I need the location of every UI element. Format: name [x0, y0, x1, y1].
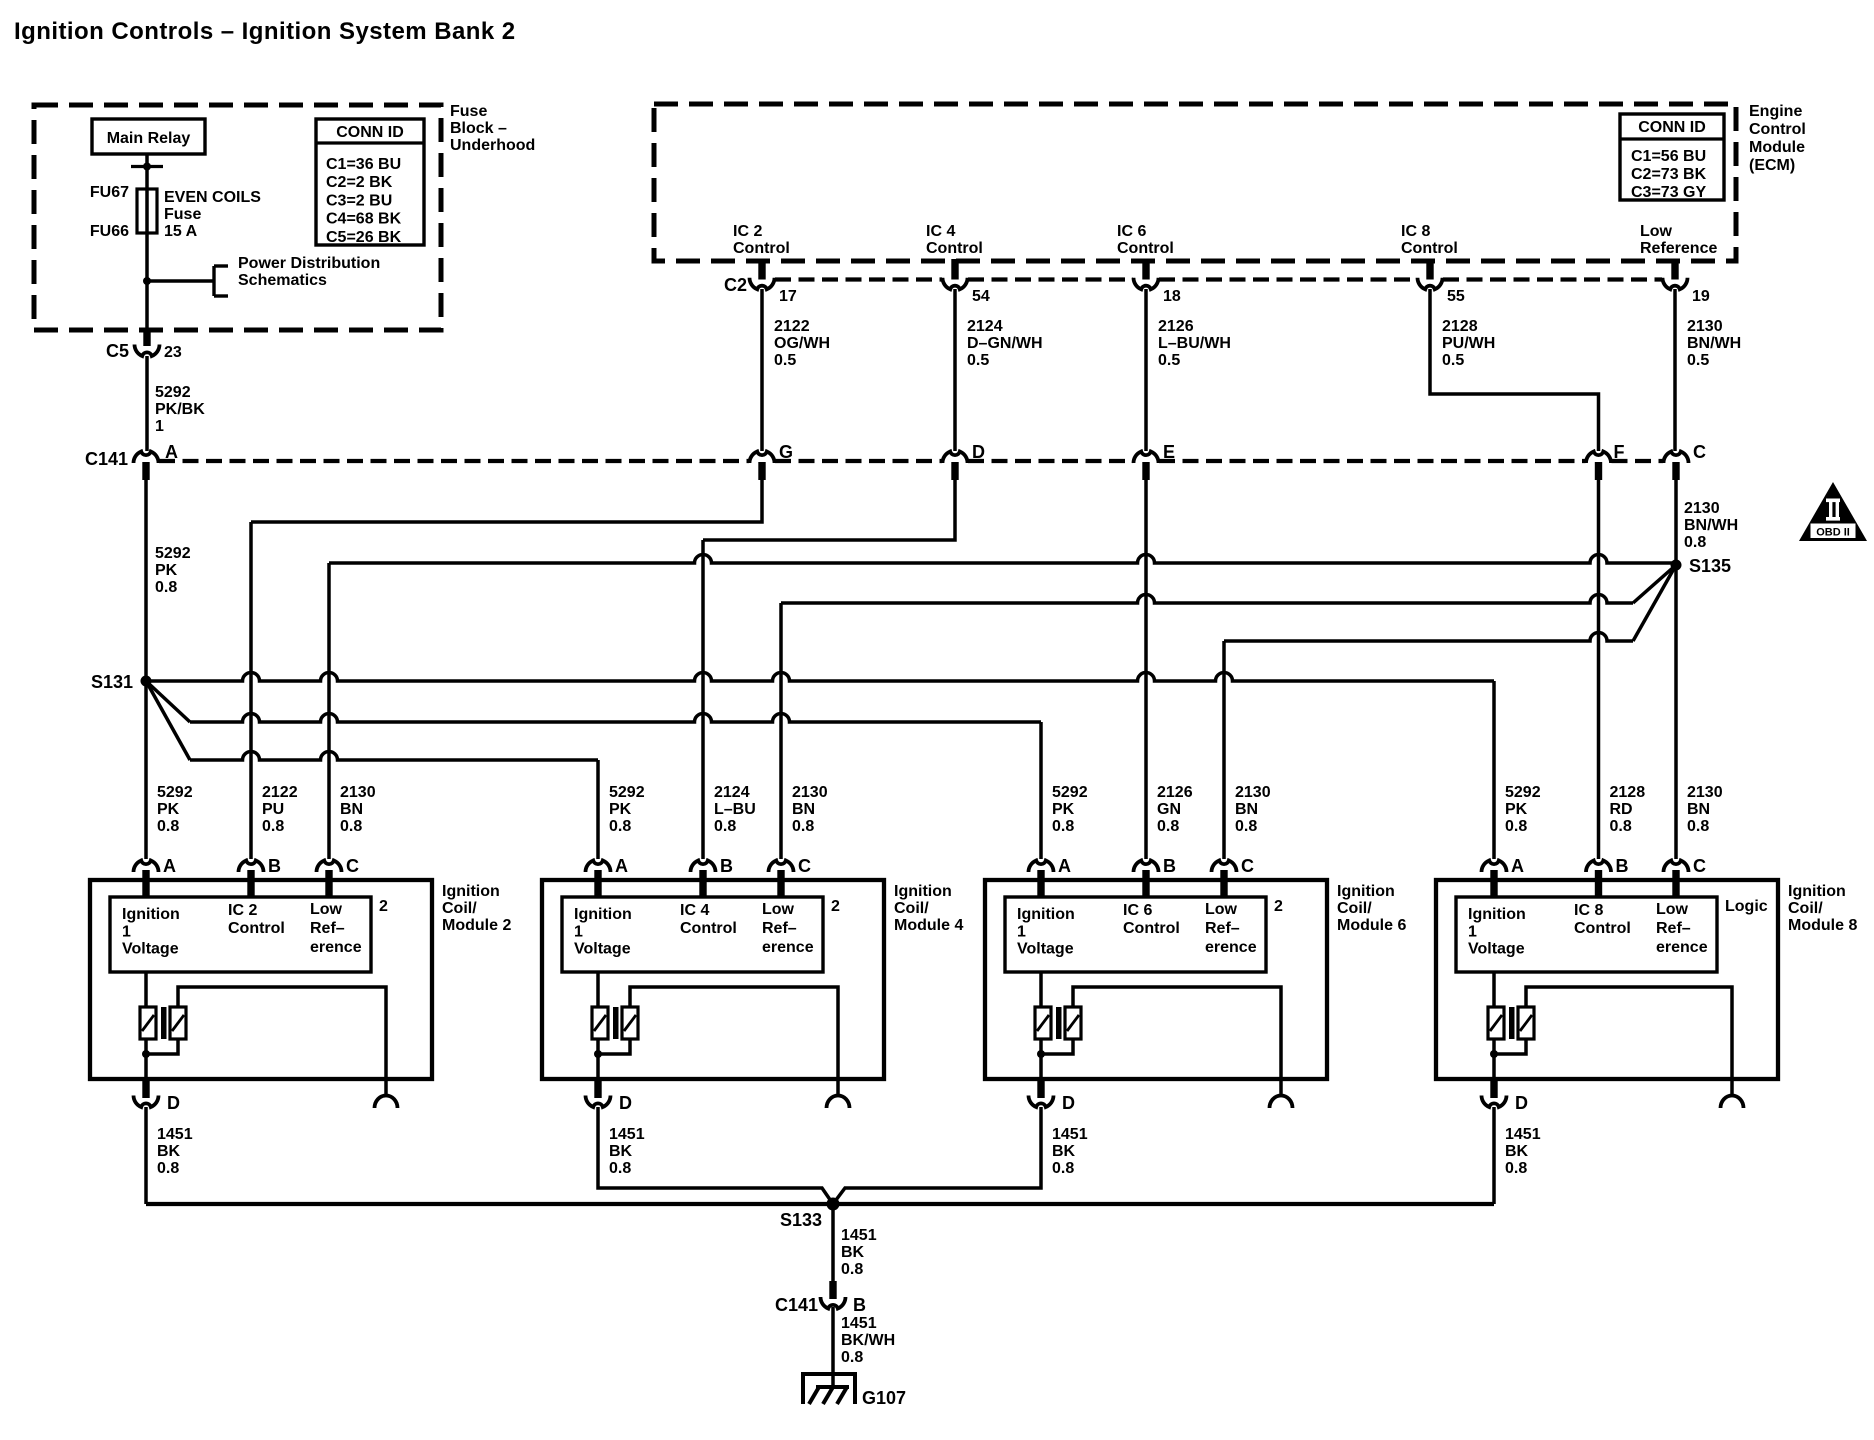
svg-text:Engine: Engine — [1749, 103, 1802, 120]
svg-text:1: 1 — [574, 923, 583, 940]
svg-text:Ignition: Ignition — [574, 906, 632, 923]
svg-text:S133: S133 — [780, 1210, 822, 1230]
svg-text:B: B — [1163, 856, 1176, 876]
svg-text:Ignition: Ignition — [122, 906, 180, 923]
svg-text:A: A — [1511, 856, 1524, 876]
svg-text:Ignition: Ignition — [1788, 883, 1846, 900]
svg-text:RD: RD — [1610, 801, 1633, 818]
svg-text:5292: 5292 — [157, 784, 193, 801]
svg-text:IC 4: IC 4 — [926, 223, 955, 240]
svg-text:Main Relay: Main Relay — [107, 130, 191, 147]
svg-text:C5: C5 — [106, 341, 129, 361]
svg-text:C5=26 BK: C5=26 BK — [326, 229, 402, 246]
svg-text:OG/WH: OG/WH — [774, 335, 830, 352]
svg-text:Ref–: Ref– — [1205, 920, 1240, 937]
svg-text:2124: 2124 — [714, 784, 750, 801]
svg-text:IC 2: IC 2 — [733, 223, 762, 240]
svg-text:BK: BK — [1052, 1143, 1076, 1160]
svg-text:Coil/: Coil/ — [894, 900, 929, 917]
svg-text:17: 17 — [779, 288, 797, 305]
svg-text:Voltage: Voltage — [122, 941, 179, 958]
svg-text:2130: 2130 — [1235, 784, 1271, 801]
svg-text:C141: C141 — [85, 449, 128, 469]
svg-text:FU67: FU67 — [90, 184, 129, 201]
svg-text:B: B — [268, 856, 281, 876]
svg-text:1: 1 — [1468, 923, 1477, 940]
svg-text:C2=73 BK: C2=73 BK — [1631, 166, 1707, 183]
svg-text:0.8: 0.8 — [1157, 818, 1179, 835]
svg-text:A: A — [615, 856, 628, 876]
svg-text:A: A — [163, 856, 176, 876]
svg-text:BK: BK — [609, 1143, 633, 1160]
svg-text:IC 2: IC 2 — [228, 902, 257, 919]
svg-text:0.5: 0.5 — [1687, 352, 1709, 369]
svg-text:0.8: 0.8 — [1052, 1160, 1074, 1177]
svg-text:2130: 2130 — [1687, 318, 1723, 335]
svg-text:Fuse: Fuse — [450, 103, 487, 120]
svg-text:Control: Control — [733, 240, 790, 257]
svg-text:PU: PU — [262, 801, 284, 818]
svg-text:C141: C141 — [775, 1295, 818, 1315]
svg-text:BN/WH: BN/WH — [1684, 517, 1738, 534]
svg-text:55: 55 — [1447, 288, 1465, 305]
svg-text:PK: PK — [155, 562, 178, 579]
svg-text:1451: 1451 — [1052, 1126, 1088, 1143]
svg-text:L–BU: L–BU — [714, 801, 756, 818]
svg-text:0.8: 0.8 — [841, 1349, 863, 1366]
svg-text:CONN ID: CONN ID — [1638, 119, 1706, 136]
svg-text:B: B — [720, 856, 733, 876]
svg-text:EVEN COILS: EVEN COILS — [164, 189, 261, 206]
svg-text:S135: S135 — [1689, 556, 1731, 576]
svg-text:D: D — [619, 1093, 632, 1113]
svg-text:0.8: 0.8 — [1684, 534, 1706, 551]
svg-text:1: 1 — [1017, 923, 1026, 940]
svg-text:0.8: 0.8 — [609, 1160, 631, 1177]
svg-text:PK: PK — [157, 801, 180, 818]
svg-text:Logic: Logic — [1725, 898, 1768, 915]
svg-text:BK: BK — [157, 1143, 181, 1160]
svg-text:1451: 1451 — [157, 1126, 193, 1143]
svg-text:Block –: Block – — [450, 120, 507, 137]
svg-text:B: B — [853, 1295, 866, 1315]
svg-text:IC 4: IC 4 — [680, 902, 709, 919]
svg-text:C4=68 BK: C4=68 BK — [326, 211, 402, 228]
svg-text:IC 8: IC 8 — [1574, 902, 1603, 919]
svg-text:Voltage: Voltage — [1468, 941, 1525, 958]
svg-text:C: C — [1693, 856, 1706, 876]
svg-text:Ignition: Ignition — [442, 883, 500, 900]
svg-text:2: 2 — [379, 898, 388, 915]
svg-text:IC 6: IC 6 — [1117, 223, 1146, 240]
svg-text:CONN ID: CONN ID — [336, 124, 404, 141]
svg-text:C: C — [1693, 442, 1706, 462]
svg-text:D–GN/WH: D–GN/WH — [967, 335, 1043, 352]
svg-text:0.8: 0.8 — [1235, 818, 1257, 835]
svg-text:Reference: Reference — [1640, 240, 1717, 257]
svg-text:BN: BN — [1687, 801, 1710, 818]
svg-text:5292: 5292 — [1052, 784, 1088, 801]
svg-text:5292: 5292 — [609, 784, 645, 801]
svg-text:Schematics: Schematics — [238, 272, 327, 289]
svg-text:Control: Control — [1401, 240, 1458, 257]
svg-text:Coil/: Coil/ — [442, 900, 477, 917]
svg-text:IC 6: IC 6 — [1123, 902, 1152, 919]
svg-text:0.8: 0.8 — [155, 579, 177, 596]
svg-text:erence: erence — [762, 939, 814, 956]
svg-text:1451: 1451 — [1505, 1126, 1541, 1143]
svg-text:1451: 1451 — [841, 1315, 877, 1332]
svg-text:BN: BN — [1235, 801, 1258, 818]
svg-text:B: B — [1616, 856, 1629, 876]
svg-text:Power Distribution: Power Distribution — [238, 255, 380, 272]
svg-text:5292: 5292 — [1505, 784, 1541, 801]
svg-text:BK: BK — [1505, 1143, 1529, 1160]
svg-text:C2=2 BK: C2=2 BK — [326, 174, 393, 191]
svg-text:Ignition Controls – Ignition S: Ignition Controls – Ignition System Bank… — [14, 18, 516, 45]
svg-text:0.5: 0.5 — [967, 352, 989, 369]
svg-text:PK/BK: PK/BK — [155, 401, 205, 418]
svg-text:1: 1 — [122, 923, 131, 940]
svg-text:2128: 2128 — [1442, 318, 1478, 335]
svg-text:0.8: 0.8 — [157, 1160, 179, 1177]
svg-text:Ref–: Ref– — [1656, 920, 1691, 937]
svg-text:2122: 2122 — [774, 318, 810, 335]
svg-text:0.8: 0.8 — [1505, 1160, 1527, 1177]
svg-text:Ref–: Ref– — [310, 920, 345, 937]
svg-text:(ECM): (ECM) — [1749, 157, 1795, 174]
svg-text:0.8: 0.8 — [1052, 818, 1074, 835]
svg-text:Fuse: Fuse — [164, 206, 201, 223]
svg-text:1: 1 — [155, 418, 164, 435]
svg-text:54: 54 — [972, 288, 990, 305]
svg-text:2122: 2122 — [262, 784, 298, 801]
svg-text:Module 6: Module 6 — [1337, 917, 1406, 934]
svg-text:2126: 2126 — [1157, 784, 1193, 801]
svg-text:Control: Control — [1117, 240, 1174, 257]
svg-text:0.8: 0.8 — [262, 818, 284, 835]
svg-text:Module: Module — [1749, 139, 1805, 156]
svg-text:BK/WH: BK/WH — [841, 1332, 895, 1349]
svg-text:D: D — [1515, 1093, 1528, 1113]
svg-text:S131: S131 — [91, 672, 133, 692]
svg-text:2: 2 — [1274, 898, 1283, 915]
svg-text:0.5: 0.5 — [1158, 352, 1180, 369]
svg-text:BN: BN — [792, 801, 815, 818]
svg-text:Ref–: Ref– — [762, 920, 797, 937]
svg-text:PU/WH: PU/WH — [1442, 335, 1495, 352]
svg-text:C3=2 BU: C3=2 BU — [326, 192, 392, 209]
svg-text:Low: Low — [1205, 901, 1238, 918]
svg-text:Low: Low — [762, 901, 795, 918]
svg-text:Low: Low — [1640, 223, 1673, 240]
svg-text:Ignition: Ignition — [894, 883, 952, 900]
svg-text:GN: GN — [1157, 801, 1181, 818]
svg-text:Coil/: Coil/ — [1788, 900, 1823, 917]
svg-text:erence: erence — [1205, 939, 1257, 956]
svg-text:0.5: 0.5 — [1442, 352, 1464, 369]
svg-text:0.8: 0.8 — [714, 818, 736, 835]
svg-text:15 A: 15 A — [164, 223, 198, 240]
svg-text:Module 4: Module 4 — [894, 917, 963, 934]
svg-text:Ignition: Ignition — [1468, 906, 1526, 923]
svg-text:IC 8: IC 8 — [1401, 223, 1430, 240]
svg-text:0.8: 0.8 — [157, 818, 179, 835]
svg-text:BK: BK — [841, 1244, 865, 1261]
svg-text:0.5: 0.5 — [774, 352, 796, 369]
svg-text:C: C — [798, 856, 811, 876]
svg-text:18: 18 — [1163, 288, 1181, 305]
svg-text:Low: Low — [1656, 901, 1689, 918]
svg-text:2126: 2126 — [1158, 318, 1194, 335]
svg-text:Voltage: Voltage — [574, 941, 631, 958]
svg-text:FU66: FU66 — [90, 223, 129, 240]
svg-text:Voltage: Voltage — [1017, 941, 1074, 958]
svg-text:BN/WH: BN/WH — [1687, 335, 1741, 352]
svg-text:Control: Control — [1574, 920, 1631, 937]
svg-text:BN: BN — [340, 801, 363, 818]
svg-text:PK: PK — [1052, 801, 1075, 818]
svg-text:0.8: 0.8 — [1505, 818, 1527, 835]
svg-text:1451: 1451 — [841, 1227, 877, 1244]
svg-text:A: A — [1058, 856, 1071, 876]
svg-text:C2: C2 — [724, 275, 747, 295]
svg-text:0.8: 0.8 — [340, 818, 362, 835]
svg-text:5292: 5292 — [155, 384, 191, 401]
svg-text:Underhood: Underhood — [450, 137, 535, 154]
svg-text:1451: 1451 — [609, 1126, 645, 1143]
svg-text:2: 2 — [831, 898, 840, 915]
svg-text:Control: Control — [1749, 121, 1806, 138]
svg-text:5292: 5292 — [155, 545, 191, 562]
svg-text:Control: Control — [926, 240, 983, 257]
svg-text:D: D — [1062, 1093, 1075, 1113]
svg-text:PK: PK — [1505, 801, 1528, 818]
svg-text:Module 8: Module 8 — [1788, 917, 1857, 934]
svg-text:0.8: 0.8 — [1610, 818, 1632, 835]
svg-text:0.8: 0.8 — [792, 818, 814, 835]
svg-text:0.8: 0.8 — [841, 1261, 863, 1278]
svg-text:Control: Control — [680, 920, 737, 937]
svg-text:Control: Control — [228, 920, 285, 937]
svg-text:C1=56 BU: C1=56 BU — [1631, 148, 1706, 165]
svg-text:Ignition: Ignition — [1017, 906, 1075, 923]
svg-text:2124: 2124 — [967, 318, 1003, 335]
svg-text:erence: erence — [1656, 939, 1708, 956]
svg-text:PK: PK — [609, 801, 632, 818]
svg-text:2130: 2130 — [1687, 784, 1723, 801]
svg-text:23: 23 — [164, 344, 182, 361]
svg-text:0.8: 0.8 — [1687, 818, 1709, 835]
svg-text:Coil/: Coil/ — [1337, 900, 1372, 917]
svg-text:2130: 2130 — [1684, 500, 1720, 517]
svg-text:C1=36 BU: C1=36 BU — [326, 156, 401, 173]
svg-text:L–BU/WH: L–BU/WH — [1158, 335, 1231, 352]
svg-text:2130: 2130 — [792, 784, 828, 801]
svg-text:2128: 2128 — [1610, 784, 1646, 801]
svg-text:C3=73 GY: C3=73 GY — [1631, 184, 1706, 201]
svg-text:D: D — [167, 1093, 180, 1113]
svg-text:Module 2: Module 2 — [442, 917, 511, 934]
svg-text:erence: erence — [310, 939, 362, 956]
svg-text:C: C — [1241, 856, 1254, 876]
svg-text:Low: Low — [310, 901, 343, 918]
svg-text:2130: 2130 — [340, 784, 376, 801]
svg-text:Control: Control — [1123, 920, 1180, 937]
svg-text:0.8: 0.8 — [609, 818, 631, 835]
svg-text:OBD II: OBD II — [1816, 527, 1850, 539]
svg-text:19: 19 — [1692, 288, 1710, 305]
svg-text:Ignition: Ignition — [1337, 883, 1395, 900]
svg-text:G107: G107 — [862, 1388, 906, 1408]
svg-text:C: C — [346, 856, 359, 876]
